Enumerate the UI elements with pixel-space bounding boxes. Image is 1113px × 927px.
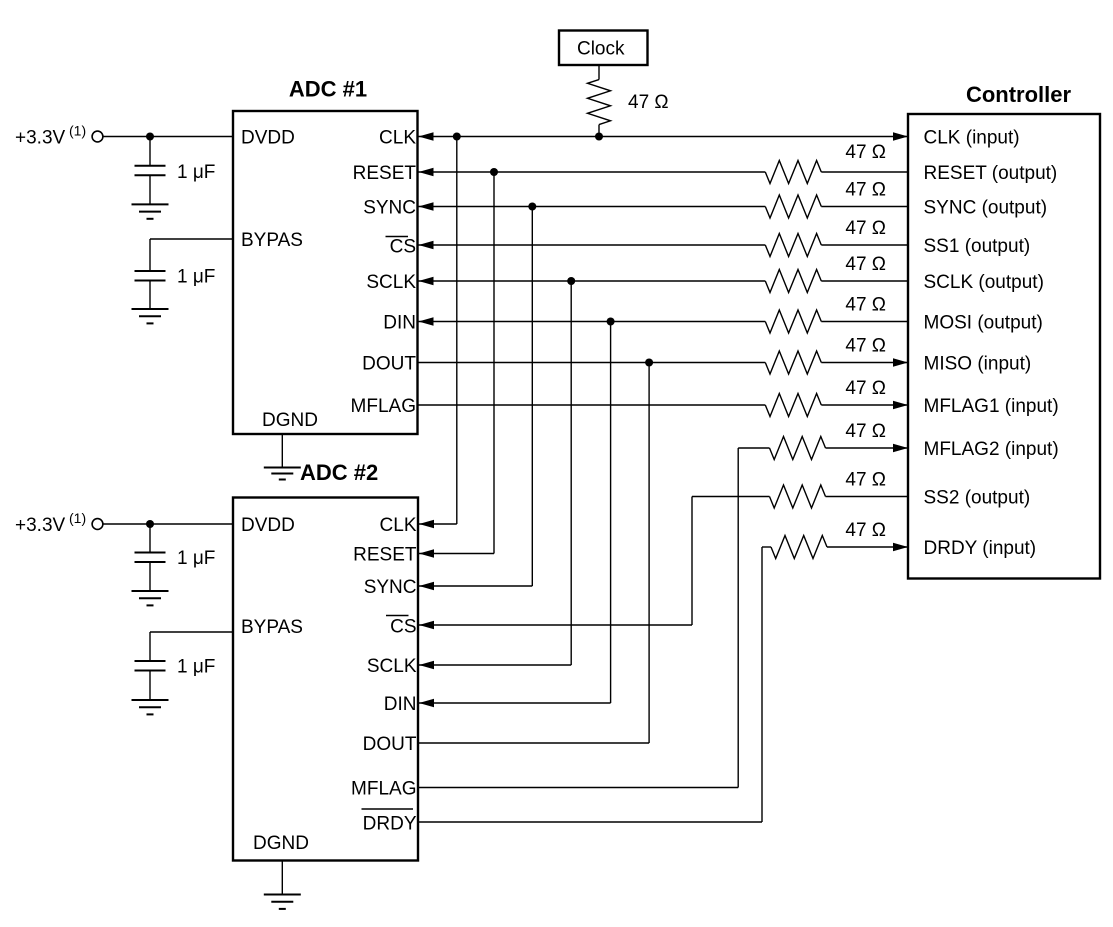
junction node: C3 tap on U2 DVDD wire xyxy=(146,520,154,528)
svg-text:CLK: CLK xyxy=(380,515,417,536)
label 47 &#937; (SS2 resistor) xyxy=(845,470,886,491)
pin label U3 SCLK (output) xyxy=(924,272,1044,293)
pin label U1 RESET xyxy=(353,163,417,184)
wire CLK branch vertical xyxy=(456,137,458,525)
wire SYNC branch vertical xyxy=(531,207,533,587)
wire CLK branch to U2 CLK xyxy=(418,523,457,525)
svg-text:CLK (input): CLK (input) xyxy=(924,128,1020,149)
wire DRDY net: vertical xyxy=(761,547,763,822)
arrow into U2 RESET xyxy=(419,549,434,558)
svg-text:MOSI (output): MOSI (output) xyxy=(924,313,1043,334)
wire MFLAG1 net: left segment xyxy=(418,404,766,406)
svg-text:47 Ω: 47 Ω xyxy=(845,218,886,239)
resistor R-MISO 47 ohm xyxy=(765,351,821,374)
pin label U2 DIN xyxy=(384,694,417,715)
wire MISO branch vertical xyxy=(648,363,650,744)
svg-text:SYNC: SYNC xyxy=(364,577,417,598)
label 47 &#937; (MFLAG2 resistor) xyxy=(845,421,886,442)
pin label U1 DOUT xyxy=(362,354,416,375)
pin label U3 SYNC (output) xyxy=(924,198,1048,219)
pin label U2 DGND xyxy=(253,833,309,854)
resistor R-MOSI 47 ohm xyxy=(765,310,821,333)
ground (C2) xyxy=(132,309,169,323)
wire DRDY net: to resistor xyxy=(762,546,771,548)
arrow into U2 CLK xyxy=(419,520,434,529)
wire junction to C1 xyxy=(149,137,151,166)
resistor R-MFLAG2 47 ohm xyxy=(770,437,826,460)
wire RESET branch to U2 RESET xyxy=(418,553,494,555)
wire junction to C3 xyxy=(149,524,151,553)
pin label U3 MISO (input) xyxy=(924,354,1032,375)
arrow into U2 DIN xyxy=(419,699,434,708)
pin label U1 SCLK xyxy=(366,272,416,293)
svg-text:DOUT: DOUT xyxy=(362,354,416,375)
pin label U1 MFLAG xyxy=(351,396,416,417)
terminal +3.3V input (ADC #2) xyxy=(92,519,103,530)
svg-text:DRDY: DRDY xyxy=(363,814,417,835)
wire clock box to resistor xyxy=(598,65,600,80)
wire MFLAG2 net: from U2 MFLAG xyxy=(418,787,738,789)
svg-text:+3.3V: +3.3V xyxy=(15,128,66,149)
wire U2 DGND to ground xyxy=(281,861,283,895)
svg-text:BYPAS: BYPAS xyxy=(241,617,303,638)
pin label U3 MFLAG2 (input) xyxy=(924,439,1059,460)
pin label U2 SYNC xyxy=(364,577,417,598)
wire SCLK branch vertical xyxy=(570,281,572,665)
svg-text:DOUT: DOUT xyxy=(363,734,417,755)
ground (U1 DGND) xyxy=(264,468,301,480)
pin label U2 SCLK xyxy=(367,656,417,677)
clock source box xyxy=(559,31,648,66)
pin label U3 RESET (output) xyxy=(924,163,1058,184)
wire RESET net: right segment xyxy=(821,171,908,173)
wire DRDY net: from U2 DRDY xyxy=(418,821,762,823)
wire MFLAG2 net: to resistor xyxy=(738,447,769,449)
svg-text:SS1 (output): SS1 (output) xyxy=(924,236,1031,257)
arrow into U2 CS xyxy=(419,621,434,630)
label 47 &#937; (MISO resistor) xyxy=(845,336,886,357)
pin label U2 CS (active low) xyxy=(386,616,417,638)
svg-text:RESET (output): RESET (output) xyxy=(924,163,1058,184)
label 47 &#937; (DRDY resistor) xyxy=(845,520,886,541)
wire SS1 net: right segment xyxy=(821,244,908,246)
arrow into U1 MOSI xyxy=(419,317,434,326)
wire RESET net: left segment xyxy=(418,171,766,173)
svg-text:DIN: DIN xyxy=(384,694,417,715)
label 47 &#937; (MFLAG1 resistor) xyxy=(845,378,886,399)
svg-text:BYPAS: BYPAS xyxy=(241,230,303,251)
svg-text:SS2 (output): SS2 (output) xyxy=(924,488,1031,509)
wire MISO net: left segment xyxy=(418,362,766,364)
label 47 &#937; (SCLK resistor) xyxy=(845,254,886,275)
wire MFLAG2 net: right segment xyxy=(826,447,909,449)
ground (C4) xyxy=(132,700,169,714)
wire MFLAG1 net: right segment xyxy=(821,404,908,406)
wire SS2 net: vertical xyxy=(691,497,693,626)
svg-text:SYNC: SYNC xyxy=(363,198,416,219)
svg-text:DVDD: DVDD xyxy=(241,515,295,536)
Controller title xyxy=(966,82,1072,107)
svg-text:CLK: CLK xyxy=(379,128,416,149)
pin label U2 RESET xyxy=(353,545,417,566)
pin label U1 DGND xyxy=(262,410,318,431)
svg-text:ADC #2: ADC #2 xyxy=(300,460,378,485)
svg-text:Clock: Clock xyxy=(577,39,625,60)
svg-text:ADC #1: ADC #1 xyxy=(289,77,367,102)
capacitor C3 1uF xyxy=(135,553,166,563)
wire SYNC branch to U2 SYNC xyxy=(418,585,532,587)
svg-text:CS: CS xyxy=(390,617,416,638)
wire SCLK net: left segment xyxy=(418,280,766,282)
pin label U2 DOUT xyxy=(363,734,417,755)
wire U2 BYPAS to C4 xyxy=(150,632,233,661)
label 47 &#937; (SYNC resistor) xyxy=(845,180,886,201)
svg-text:DGND: DGND xyxy=(253,833,309,854)
IC U3 Controller box xyxy=(908,114,1100,579)
pin label U3 SS2 (output) xyxy=(924,488,1031,509)
pin label U2 DVDD xyxy=(241,515,295,536)
resistor R-SCLK 47 ohm xyxy=(765,270,821,293)
svg-text:DGND: DGND xyxy=(262,410,318,431)
svg-text:1 μF: 1 μF xyxy=(177,267,215,288)
ADC #2 title xyxy=(300,460,378,485)
pin label U2 CLK xyxy=(380,515,417,536)
svg-text:(1): (1) xyxy=(69,510,86,526)
wire SS2 net: to U2 CS xyxy=(418,624,692,626)
label 47 &#937; (clock resistor) xyxy=(628,92,669,113)
ADC #1 title xyxy=(289,77,367,102)
pin label U3 DRDY (input) xyxy=(924,538,1037,559)
junction node: MISO branch to U2 DOUT xyxy=(645,359,653,367)
arrow into U1 SYNC xyxy=(419,202,434,211)
svg-text:(1): (1) xyxy=(69,123,86,139)
ground (C3) xyxy=(132,591,169,605)
pin label U2 MFLAG xyxy=(351,779,416,800)
label +3.3V supply (ADC #2) xyxy=(15,515,66,536)
label footnote (1) for ADC #1 supply xyxy=(69,123,86,139)
wire +3.3V to U1 DVDD xyxy=(103,136,234,138)
wire MFLAG2 net: vertical xyxy=(737,448,739,788)
wire C4 to ground xyxy=(149,671,151,701)
resistor R-SS1 47 ohm xyxy=(765,234,821,257)
svg-text:+3.3V: +3.3V xyxy=(15,515,66,536)
label C2 1 uF xyxy=(177,267,215,288)
wire SCLK net: right segment xyxy=(821,280,908,282)
svg-text:DRDY (input): DRDY (input) xyxy=(924,538,1037,559)
label C1 1 uF xyxy=(177,162,215,183)
svg-text:MISO (input): MISO (input) xyxy=(924,354,1032,375)
arrow into U2 SYNC xyxy=(419,582,434,591)
junction node: SCLK branch to U2 xyxy=(567,277,575,285)
arrow into controller MISO (input) xyxy=(893,358,908,367)
svg-text:SYNC (output): SYNC (output) xyxy=(924,198,1048,219)
arrow into controller CLK (input) xyxy=(893,132,908,141)
pin label U1 CLK xyxy=(379,128,416,149)
svg-text:1 μF: 1 μF xyxy=(177,657,215,678)
arrow into U1 SS1 xyxy=(419,241,434,250)
label C3 1 uF xyxy=(177,548,215,569)
label C4 1 uF xyxy=(177,657,215,678)
arrow into controller DRDY (input) xyxy=(893,543,908,552)
svg-text:47 Ω: 47 Ω xyxy=(845,295,886,316)
svg-text:1 μF: 1 μF xyxy=(177,548,215,569)
resistor R-MFLAG1 47 ohm xyxy=(765,394,821,417)
svg-text:47 Ω: 47 Ω xyxy=(845,470,886,491)
terminal +3.3V input (ADC #1) xyxy=(92,131,103,142)
wire +3.3V to U2 DVDD xyxy=(103,523,234,525)
arrow into U1 CLK xyxy=(419,132,434,141)
svg-text:47 Ω: 47 Ω xyxy=(845,142,886,163)
label +3.3V supply (ADC #1) xyxy=(15,128,66,149)
capacitor C2 1uF xyxy=(135,271,166,281)
svg-text:MFLAG1 (input): MFLAG1 (input) xyxy=(924,396,1059,417)
svg-text:SCLK: SCLK xyxy=(366,272,416,293)
svg-text:Controller: Controller xyxy=(966,82,1072,107)
pin label U1 CS (active low) xyxy=(386,237,417,258)
svg-text:RESET: RESET xyxy=(353,163,417,184)
wire C1 to ground xyxy=(149,175,151,204)
wire MOSI branch vertical xyxy=(610,322,612,704)
wire MOSI net: left segment xyxy=(418,321,766,323)
wire DRDY net: right segment xyxy=(827,546,908,548)
wire SYNC net: right segment xyxy=(821,206,908,208)
svg-text:47 Ω: 47 Ω xyxy=(845,180,886,201)
wire U1 DGND to ground xyxy=(281,434,283,468)
pin label U1 BYPAS xyxy=(241,230,303,251)
wire MOSI net: right segment xyxy=(821,321,908,323)
IC U1 ADC #1 box xyxy=(233,111,418,434)
pin label U3 MOSI (output) xyxy=(924,313,1043,334)
svg-text:47 Ω: 47 Ω xyxy=(845,336,886,357)
wire C2 to ground xyxy=(149,281,151,310)
svg-text:SCLK: SCLK xyxy=(367,656,417,677)
pin label U3 MFLAG1 (input) xyxy=(924,396,1059,417)
svg-text:MFLAG2 (input): MFLAG2 (input) xyxy=(924,439,1059,460)
svg-text:SCLK (output): SCLK (output) xyxy=(924,272,1044,293)
ground (U2 DGND) xyxy=(264,895,301,909)
svg-text:MFLAG: MFLAG xyxy=(351,779,416,800)
wire clock resistor to CLK net xyxy=(598,125,600,137)
arrow into controller MFLAG2 (input) xyxy=(893,444,908,453)
wire SS2 net: to vertical xyxy=(692,496,770,498)
resistor R-SYNC 47 ohm xyxy=(765,195,821,218)
svg-text:47 Ω: 47 Ω xyxy=(845,421,886,442)
wire C3 to ground xyxy=(149,562,151,591)
svg-text:RESET: RESET xyxy=(353,545,417,566)
capacitor C4 1uF xyxy=(135,661,166,671)
junction node: C1 tap on DVDD wire xyxy=(146,133,154,141)
wire SS2 net: right segment xyxy=(826,496,909,498)
svg-text:47 Ω: 47 Ω xyxy=(845,254,886,275)
junction node: RESET branch to U2 xyxy=(490,168,498,176)
arrow into U1 SCLK xyxy=(419,277,434,286)
arrow into U2 SCLK xyxy=(419,661,434,670)
junction node: CLK branch to U2 xyxy=(453,133,461,141)
svg-text:47 Ω: 47 Ω xyxy=(845,378,886,399)
pin label U2 BYPAS xyxy=(241,617,303,638)
svg-text:1 μF: 1 μF xyxy=(177,162,215,183)
wire U1 BYPAS to C2 xyxy=(150,239,233,271)
pin label U1 DIN xyxy=(383,313,416,334)
IC U2 ADC #2 box xyxy=(233,498,418,861)
ground (C1) xyxy=(132,204,169,218)
svg-text:MFLAG: MFLAG xyxy=(351,396,416,417)
resistor R-DRDY 47 ohm xyxy=(771,536,827,559)
junction node: SYNC branch to U2 xyxy=(528,203,536,211)
label footnote (1) for ADC #2 supply xyxy=(69,510,86,526)
wire MOSI branch to U2 DIN xyxy=(418,702,611,704)
label 47 &#937; (SS1 resistor) xyxy=(845,218,886,239)
pin label U3 SS1 (output) xyxy=(924,236,1031,257)
pin label U2 DRDY (active low) xyxy=(362,809,417,835)
capacitor C1 1uF xyxy=(135,166,166,176)
arrow into U1 RESET xyxy=(419,168,434,177)
resistor R-CLK 47 ohm (series clock) xyxy=(588,80,611,125)
resistor R-RESET 47 ohm xyxy=(765,161,821,184)
svg-text:47 Ω: 47 Ω xyxy=(628,92,669,113)
resistor R-SS2 47 ohm xyxy=(770,485,826,508)
junction node: clock resistor on CLK net xyxy=(595,133,603,141)
junction node: MOSI branch to U2 xyxy=(607,318,615,326)
label 47 &#937; (MOSI resistor) xyxy=(845,295,886,316)
svg-text:CS: CS xyxy=(390,237,416,258)
svg-text:DVDD: DVDD xyxy=(241,128,295,149)
svg-text:DIN: DIN xyxy=(383,313,416,334)
label 47 &#937; (RESET resistor) xyxy=(845,142,886,163)
wire MISO branch to U2 DOUT xyxy=(418,742,649,744)
wire SS1 net: left segment xyxy=(418,244,766,246)
pin label U1 DVDD xyxy=(241,128,295,149)
wire MISO net: right segment xyxy=(821,362,908,364)
wire CLK net: U1 CLK to controller CLK xyxy=(418,136,909,138)
pin label U1 SYNC xyxy=(363,198,416,219)
wire RESET branch vertical xyxy=(493,172,495,554)
arrow into controller MFLAG1 (input) xyxy=(893,401,908,410)
pin label U3 CLK (input) xyxy=(924,128,1020,149)
svg-text:47 Ω: 47 Ω xyxy=(845,520,886,541)
wire SYNC net: left segment xyxy=(418,206,766,208)
wire SCLK branch to U2 SCLK xyxy=(418,664,571,666)
